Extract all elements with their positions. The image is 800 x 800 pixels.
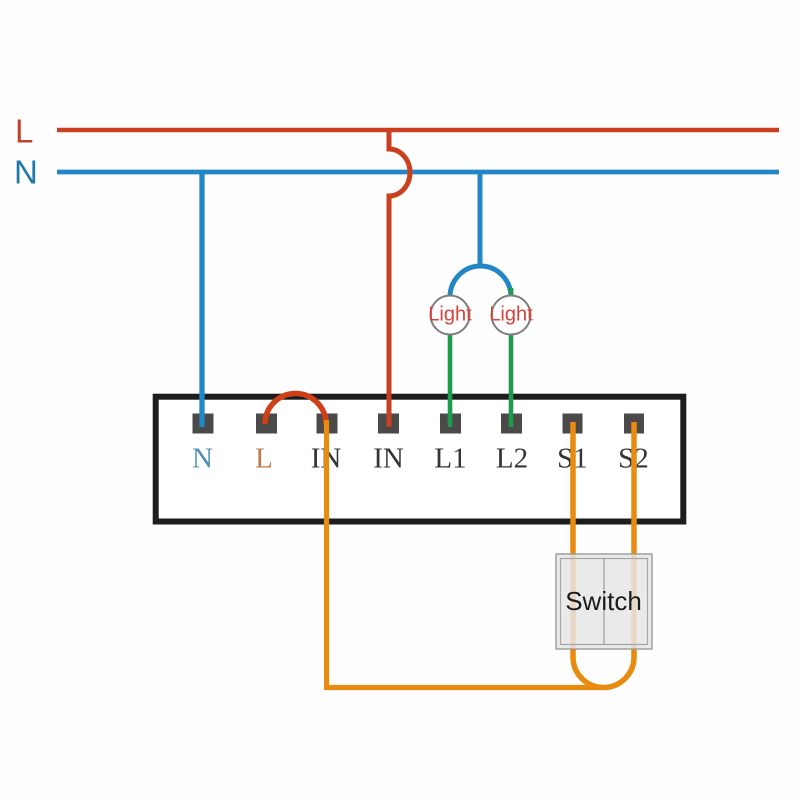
svg-text:L2: L2 <box>496 443 528 475</box>
svg-text:IN: IN <box>373 443 404 475</box>
svg-text:Light: Light <box>489 304 533 326</box>
svg-text:N: N <box>192 443 213 475</box>
svg-text:L: L <box>255 443 273 475</box>
svg-text:N: N <box>14 154 38 191</box>
svg-text:Switch: Switch <box>565 586 642 616</box>
svg-text:L: L <box>15 113 33 150</box>
svg-text:Light: Light <box>428 304 472 326</box>
svg-text:L1: L1 <box>434 443 466 475</box>
